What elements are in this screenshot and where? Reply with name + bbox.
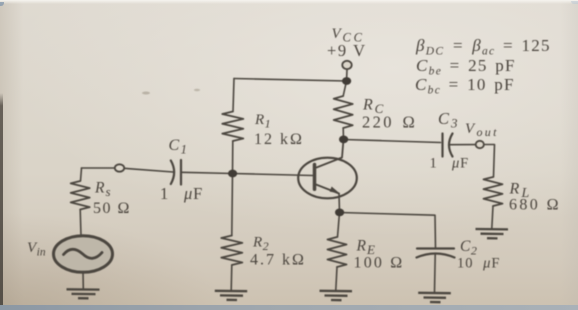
svg-text:R1: R1 xyxy=(254,112,271,131)
svg-text:Vin: Vin xyxy=(27,240,46,259)
svg-text:10 μF: 10 μF xyxy=(457,256,500,272)
svg-text:βDC = βac = 125: βDC = βac = 125 xyxy=(415,36,551,58)
svg-text:1 μF: 1 μF xyxy=(160,184,203,203)
svg-text:4.7 kΩ: 4.7 kΩ xyxy=(250,252,306,269)
svg-text:C1: C1 xyxy=(169,137,187,157)
svg-text:50 Ω: 50 Ω xyxy=(93,200,131,217)
svg-text:220 Ω: 220 Ω xyxy=(362,113,417,132)
svg-text:R2: R2 xyxy=(252,235,269,254)
svg-text:Rs: Rs xyxy=(94,180,111,200)
svg-text:680 Ω: 680 Ω xyxy=(509,197,561,214)
svg-text:Vout: Vout xyxy=(465,121,499,139)
svg-text:1 μF: 1 μF xyxy=(430,156,469,172)
svg-text:+9 V: +9 V xyxy=(327,41,367,60)
svg-text:C3: C3 xyxy=(438,109,458,131)
svg-text:Cbc = 10 pF: Cbc = 10 pF xyxy=(415,75,515,97)
svg-text:12 kΩ: 12 kΩ xyxy=(254,131,304,148)
svg-text:100 Ω: 100 Ω xyxy=(354,255,405,272)
